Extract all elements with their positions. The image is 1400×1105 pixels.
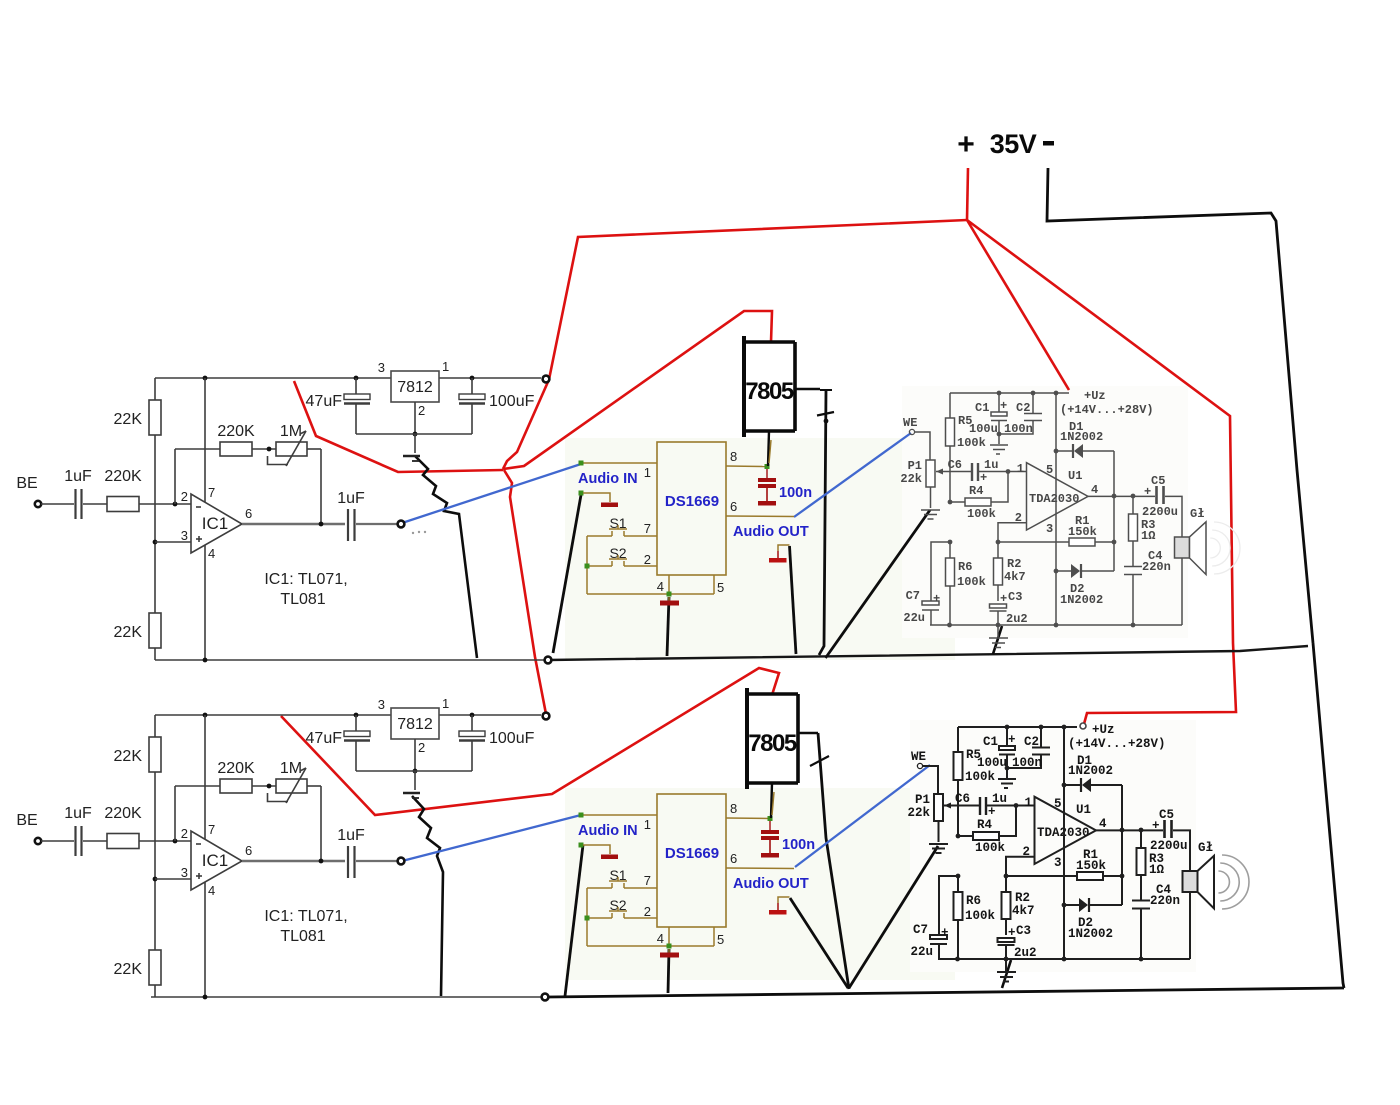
resistor R2 4k7 ch2 bbox=[1005, 876, 1007, 892]
svg-text:+: + bbox=[1000, 399, 1007, 413]
svg-text:4: 4 bbox=[208, 546, 215, 561]
svg-text:1uF: 1uF bbox=[64, 805, 92, 822]
svg-text:1N2002: 1N2002 bbox=[1060, 593, 1103, 607]
ground ch1 DS pin4 bbox=[668, 597, 670, 601]
wire ch1 switch common column bbox=[586, 536, 588, 594]
wire ch2 WE to P1 bbox=[922, 766, 938, 794]
wire ch2 preamp ground rail bbox=[151, 996, 548, 998]
svg-text:Audio OUT: Audio OUT bbox=[733, 524, 809, 540]
svg-text:C6: C6 bbox=[948, 458, 962, 472]
ground ch1 amp rail marker bbox=[997, 625, 999, 637]
svg-text:8: 8 bbox=[730, 449, 737, 464]
wire ch2 switch common column bbox=[586, 888, 588, 946]
svg-text:100k: 100k bbox=[975, 841, 1006, 855]
svg-text:+: + bbox=[1000, 592, 1007, 606]
node ch2 pin2 bbox=[173, 839, 178, 844]
wire ch1 WE to P1 bbox=[914, 432, 930, 460]
capacitor C1 100u ch1 bbox=[998, 393, 1000, 412]
svg-text:4: 4 bbox=[657, 931, 664, 946]
regulator 7805 ch1 bbox=[742, 336, 746, 437]
svg-text:1: 1 bbox=[1024, 796, 1032, 810]
svg-text:100k: 100k bbox=[957, 575, 986, 589]
wire ch2 DS bottom (pins 4,5) bbox=[587, 945, 714, 947]
wire red knot down to channel2 rail terminal bbox=[504, 470, 546, 714]
wire ch2 amp output bbox=[1096, 829, 1163, 831]
wire ch2 DS pin8 bbox=[726, 817, 770, 820]
wire ch2 pin2 to feedback node bbox=[1006, 857, 1035, 876]
wire ch1 supply column through U1 bbox=[1055, 393, 1057, 625]
IC DS1669 ch1 bbox=[657, 442, 726, 575]
node ch2 top-rail junctions bbox=[203, 713, 208, 718]
capacitor 100uF ch2 bbox=[459, 731, 485, 737]
svg-text:1uF: 1uF bbox=[337, 827, 365, 844]
terminal ch1 preamp output bbox=[398, 521, 405, 528]
wiper arrow P1 ch2 bbox=[944, 805, 980, 807]
svg-text:100n: 100n bbox=[1004, 422, 1033, 436]
wire ch2 pin4 to ground rail bbox=[204, 882, 206, 997]
wire ch2 pin7 supply bbox=[204, 715, 206, 839]
svg-text:1uF: 1uF bbox=[337, 490, 365, 507]
svg-text:2: 2 bbox=[644, 904, 651, 919]
background tint amp area ch1 bbox=[902, 386, 1188, 638]
wire ch2 7812 pin2 down bbox=[414, 739, 416, 771]
svg-text:220K: 220K bbox=[217, 760, 255, 777]
svg-text:Audio OUT: Audio OUT bbox=[733, 876, 809, 892]
svg-text:Gł: Gł bbox=[1190, 507, 1204, 521]
wire ch1 7805 output to mid rail bbox=[795, 388, 820, 391]
op-amp IC1 ch2 bbox=[191, 831, 242, 890]
wire ch1 to pin2 bbox=[139, 503, 191, 505]
wire blue ch2 AudioOUT to WE bbox=[795, 765, 930, 867]
svg-text:4k7: 4k7 bbox=[1004, 570, 1026, 584]
potentiometer 1M ch1 bbox=[276, 442, 307, 456]
svg-text:150k: 150k bbox=[1068, 525, 1097, 539]
wire ch1 1M to output node bbox=[320, 449, 322, 524]
potentiometer P1 22k ch1 bbox=[926, 460, 935, 487]
svg-text:IC1: TL071,: IC1: TL071, bbox=[264, 908, 347, 925]
svg-text:100u: 100u bbox=[977, 756, 1007, 770]
wire ch1 amp +V rail bbox=[950, 392, 1069, 394]
svg-text:+: + bbox=[1008, 733, 1016, 747]
wire ch2 input bbox=[41, 840, 74, 842]
capacitor C3 2u2 ch1 bbox=[990, 604, 1007, 608]
wire blue ch2 preamp-out to AudioIN bbox=[402, 815, 581, 861]
svg-text:22u: 22u bbox=[910, 945, 933, 959]
wire +35V stub red bbox=[967, 168, 968, 220]
svg-text:1N2002: 1N2002 bbox=[1068, 764, 1113, 778]
svg-text:100n: 100n bbox=[1012, 756, 1042, 770]
wire ch2 7805 output pin bbox=[771, 783, 772, 818]
svg-text:+: + bbox=[988, 805, 996, 819]
svg-text:100uF: 100uF bbox=[489, 393, 535, 410]
terminal ch2 preamp output bbox=[398, 858, 405, 865]
wire red to 7805 ch2 bbox=[281, 668, 779, 815]
wire ch2 pin3 bbox=[155, 878, 191, 880]
terminal BE input ch2 bbox=[35, 838, 41, 844]
svg-text:1M: 1M bbox=[280, 760, 302, 777]
speaker Gl ch1 bbox=[1175, 537, 1190, 558]
wire ch2 1M to output node bbox=[320, 786, 322, 861]
wire ch2 7805 output to bottom rail bbox=[798, 732, 818, 735]
svg-text:220K: 220K bbox=[104, 468, 142, 485]
wiper arrow P1 ch1 bbox=[936, 471, 972, 473]
svg-text:+: + bbox=[1144, 485, 1151, 499]
resistor R1 150k ch2 bbox=[1006, 875, 1077, 877]
svg-text:3: 3 bbox=[181, 865, 188, 880]
node ch2 feedback-1M junction bbox=[267, 784, 272, 789]
svg-text:C1: C1 bbox=[983, 735, 998, 749]
svg-text:2: 2 bbox=[644, 552, 651, 567]
IC DS1669 ch2 bbox=[657, 794, 726, 927]
op-amp U1 TDA2030 ch2 bbox=[1035, 797, 1097, 864]
potentiometer P1 22k ch2 bbox=[934, 794, 943, 821]
regulator 7812 ch2 bbox=[391, 708, 439, 739]
svg-text:150k: 150k bbox=[1076, 859, 1107, 873]
wire ground slash ch2 amp bbox=[1002, 960, 1011, 988]
ground ch2 C1/C2 bbox=[1006, 768, 1008, 778]
wire ch1 DS bottom (pins 4,5) bbox=[587, 593, 714, 595]
svg-text:1Ω: 1Ω bbox=[1141, 529, 1155, 543]
wire ch2 supply column through U1 bbox=[1063, 727, 1065, 959]
svg-text:1: 1 bbox=[1017, 462, 1024, 476]
svg-text:+Uz: +Uz bbox=[1084, 389, 1106, 403]
svg-text:2200u: 2200u bbox=[1150, 839, 1188, 853]
svg-text:1: 1 bbox=[442, 696, 449, 711]
svg-text:1uF: 1uF bbox=[64, 468, 92, 485]
terminal ch2 +Uz bbox=[1080, 723, 1086, 729]
ground ch2 amp rail marker bbox=[1005, 959, 1007, 971]
ground ch2 DS pin4 bbox=[668, 949, 670, 953]
svg-text:5: 5 bbox=[1046, 463, 1053, 477]
wire ground ch2 P1 diagonal bbox=[849, 846, 938, 988]
svg-text:C6: C6 bbox=[955, 792, 970, 806]
svg-text:220n: 220n bbox=[1142, 560, 1171, 574]
svg-text:1M: 1M bbox=[280, 423, 302, 440]
speaker Gl ch2 bbox=[1183, 871, 1198, 892]
svg-text:P1: P1 bbox=[915, 793, 930, 807]
ground ch1 7812 bbox=[414, 434, 416, 453]
svg-text:2u2: 2u2 bbox=[1014, 946, 1037, 960]
wire ch1 C5 to speaker bbox=[1165, 496, 1182, 537]
background tint DS area ch2 bbox=[565, 788, 955, 980]
resistor R5 100k ch1 bbox=[949, 393, 951, 418]
capacitor 1uF output ch1 bbox=[347, 509, 349, 541]
capacitor C2 100n ch1 bbox=[1032, 393, 1034, 413]
capacitor C4 220n ch2 bbox=[1132, 900, 1150, 902]
svg-text:22K: 22K bbox=[114, 624, 143, 641]
svg-text:100uF: 100uF bbox=[489, 730, 535, 747]
svg-text:R4: R4 bbox=[977, 818, 993, 832]
svg-text:7812: 7812 bbox=[397, 379, 433, 396]
svg-text:WE: WE bbox=[903, 416, 917, 430]
resistor R-22K lower ch2 bbox=[149, 950, 161, 985]
diode D2 1N2002 ch1 bbox=[1056, 570, 1071, 572]
wire ch1 amp ground rail bbox=[930, 624, 1182, 626]
svg-text:2: 2 bbox=[418, 403, 425, 418]
wire ch2 feedback riser bbox=[174, 786, 176, 841]
svg-text:47uF: 47uF bbox=[306, 730, 343, 747]
svg-text:P1: P1 bbox=[908, 459, 922, 473]
wire ground ch1 DS pin4 bbox=[667, 597, 669, 656]
background tint DS area ch1 bbox=[565, 438, 955, 660]
wire ground slash ch1 amp bbox=[993, 626, 1002, 654]
svg-text:3: 3 bbox=[378, 697, 385, 712]
node ch1 feedback-1M junction bbox=[267, 447, 272, 452]
wire ch2 op-amp output bbox=[242, 860, 345, 863]
svg-text:+Uz: +Uz bbox=[1092, 723, 1115, 737]
ground ch2 7812 bbox=[414, 771, 416, 790]
wire ch1 DS pin6 (Audio OUT) bbox=[726, 515, 794, 518]
svg-text:7805: 7805 bbox=[748, 730, 797, 757]
svg-text:4: 4 bbox=[1091, 483, 1098, 497]
svg-text:22k: 22k bbox=[907, 806, 930, 820]
svg-text:2: 2 bbox=[181, 489, 188, 504]
wire ch2 amp ground rail bbox=[938, 958, 1190, 960]
capacitor C5 2200u ch2 bbox=[1163, 820, 1166, 838]
svg-text:220K: 220K bbox=[104, 805, 142, 822]
resistor 220K feedback ch1 bbox=[220, 442, 252, 456]
capacitor 1uF input ch2 bbox=[74, 826, 76, 856]
wire ground ch1 AudioIN bbox=[553, 495, 581, 653]
wire red J1 to channel1 amp +Uz bbox=[967, 220, 1069, 390]
regulator 7805 ch2 bbox=[745, 688, 749, 789]
svg-text:3: 3 bbox=[378, 360, 385, 375]
svg-text:+: + bbox=[1008, 926, 1016, 940]
svg-text:TL081: TL081 bbox=[280, 928, 325, 945]
ground ch1 P1 bbox=[930, 487, 932, 508]
wire ch1 output node column bbox=[1113, 451, 1115, 571]
svg-text:220n: 220n bbox=[1150, 894, 1180, 908]
svg-text:7: 7 bbox=[208, 485, 215, 500]
svg-text:1u: 1u bbox=[984, 458, 998, 472]
svg-text:100n: 100n bbox=[782, 837, 815, 853]
svg-text:4: 4 bbox=[657, 579, 664, 594]
svg-text:22K: 22K bbox=[114, 961, 143, 978]
resistor R-22K lower ch1 bbox=[149, 613, 161, 648]
svg-text:35V: 35V bbox=[990, 129, 1037, 159]
wire ch1 preamp ground rail bbox=[155, 659, 548, 661]
op-amp IC1 ch1 bbox=[191, 494, 242, 553]
ground ch1 spare output bbox=[778, 545, 790, 551]
wire blue ch1 AudioOUT to WE bbox=[794, 433, 911, 517]
diode D2 1N2002 ch2 bbox=[1064, 904, 1079, 906]
svg-text:R4: R4 bbox=[969, 484, 983, 498]
svg-text:5: 5 bbox=[1054, 797, 1062, 811]
wire ch2 divider column bbox=[154, 772, 156, 950]
resistor R-22K upper ch2 bbox=[154, 715, 156, 737]
resistor 220K input ch1 bbox=[107, 497, 139, 512]
wire ch2 to pin2 bbox=[139, 840, 191, 842]
svg-text:100k: 100k bbox=[965, 770, 996, 784]
wire ch1 pin4 to ground rail bbox=[204, 545, 206, 660]
terminal ch2 +12V rail end bbox=[543, 713, 550, 720]
wire ch2 output node column bbox=[1121, 785, 1123, 905]
capacitor C6 1u ch1 bbox=[971, 463, 973, 481]
svg-text:Gł: Gł bbox=[1198, 841, 1213, 855]
resistor R4 100k ch1 bbox=[948, 500, 953, 505]
wire red knot to 7805 ch1 bbox=[503, 311, 772, 469]
mark dots near ch1 output terminal bbox=[412, 532, 414, 534]
svg-text:1: 1 bbox=[644, 465, 651, 480]
capacitor C7 22u ch2 bbox=[939, 876, 958, 935]
wire ground ch2 DS pin4 bbox=[668, 949, 669, 993]
wire ch1 input bbox=[41, 503, 74, 505]
svg-text:BE: BE bbox=[16, 475, 37, 492]
resistor R6 100k ch2 bbox=[956, 874, 961, 879]
capacitor C4 220n ch1 bbox=[1124, 566, 1142, 568]
wire ch2 preamp top rail bbox=[155, 714, 391, 716]
svg-text:1: 1 bbox=[442, 359, 449, 374]
terminal bottom rail bbox=[542, 994, 549, 1001]
regulator 7812 ch1 bbox=[391, 371, 439, 402]
wire red knot to 1M stub ch1 bbox=[294, 381, 503, 472]
svg-text:+: + bbox=[1152, 819, 1160, 833]
wire ch1 pin7 supply bbox=[204, 378, 206, 502]
svg-text:R2: R2 bbox=[1007, 557, 1021, 571]
svg-text:4: 4 bbox=[208, 883, 215, 898]
svg-text:6: 6 bbox=[730, 851, 737, 866]
resistor R6 100k ch1 bbox=[948, 540, 953, 545]
svg-text:WE: WE bbox=[911, 750, 926, 764]
svg-text:IC1: IC1 bbox=[202, 514, 228, 533]
svg-text:100n: 100n bbox=[779, 485, 812, 501]
svg-text:BE: BE bbox=[16, 812, 37, 829]
svg-text:8: 8 bbox=[730, 801, 737, 816]
svg-text:C3: C3 bbox=[1016, 924, 1031, 938]
svg-text:C2: C2 bbox=[1024, 735, 1039, 749]
tick ch1 7805 line bbox=[817, 412, 834, 416]
svg-text:7: 7 bbox=[208, 822, 215, 837]
svg-text:2200u: 2200u bbox=[1142, 505, 1178, 519]
ground ch1 C1/C2 bbox=[998, 434, 1000, 444]
wire ground squiggle ch1 7812 bbox=[415, 456, 477, 658]
wire bottom ground rail bbox=[548, 988, 1344, 997]
svg-text:IC1: TL071,: IC1: TL071, bbox=[264, 571, 347, 588]
capacitor 47uF ch2 bbox=[344, 731, 370, 737]
wire ground ch2 AudioOUT bbox=[790, 898, 848, 988]
svg-text:7805: 7805 bbox=[745, 378, 794, 405]
svg-text:6: 6 bbox=[245, 506, 252, 521]
wire ground squiggle ch2 7812 bbox=[412, 796, 443, 996]
svg-text:+: + bbox=[980, 471, 987, 485]
capacitor 1uF output ch2 bbox=[347, 846, 349, 878]
svg-text:5: 5 bbox=[717, 580, 724, 595]
wire ch1 7812 pin2 down bbox=[414, 402, 416, 434]
svg-text:C7: C7 bbox=[906, 589, 920, 603]
wire ch1 DS pin8 bbox=[726, 465, 767, 468]
capacitor C6 1u ch2 bbox=[979, 797, 981, 815]
svg-text:DS1669: DS1669 bbox=[665, 845, 719, 862]
resistor R4 100k ch2 bbox=[956, 834, 961, 839]
svg-text:U1: U1 bbox=[1076, 803, 1091, 817]
capacitor 100uF ch1 bbox=[459, 394, 485, 400]
ground ch2 spare output bbox=[778, 897, 790, 903]
svg-text:3: 3 bbox=[1054, 856, 1062, 870]
diode D1 1N2002 ch2 bbox=[1064, 784, 1080, 786]
potentiometer 1M ch2 bbox=[276, 779, 307, 793]
capacitor C2 100n ch2 bbox=[1040, 727, 1042, 747]
svg-text:R6: R6 bbox=[958, 560, 972, 574]
wire ch2 DS pin6 (Audio OUT) bbox=[726, 867, 794, 870]
wire ch2 amp +V rail bbox=[958, 726, 1077, 728]
capacitor 100n ch1 bbox=[766, 469, 768, 478]
wire blue ch1 preamp-out to AudioIN bbox=[402, 464, 581, 523]
svg-text:4k7: 4k7 bbox=[1012, 904, 1035, 918]
svg-text:U1: U1 bbox=[1068, 469, 1082, 483]
resistor R2 4k7 ch1 bbox=[997, 542, 999, 558]
resistor R3 ch1 bbox=[1132, 496, 1134, 514]
speaker arcs ch1 bbox=[1210, 538, 1220, 558]
svg-text:Audio IN: Audio IN bbox=[578, 471, 638, 487]
svg-text:DS1669: DS1669 bbox=[665, 493, 719, 510]
svg-text:4: 4 bbox=[1099, 817, 1107, 831]
background tint amp area ch2 bbox=[910, 720, 1196, 972]
svg-text:7: 7 bbox=[644, 521, 651, 536]
wire -35V to right side ground bus bbox=[1047, 168, 1313, 643]
wire ground ch2 AudioIN bbox=[565, 845, 583, 996]
svg-text:7812: 7812 bbox=[397, 716, 433, 733]
wire ground ch1 AudioOUT bbox=[790, 546, 797, 654]
svg-text:100u: 100u bbox=[969, 422, 998, 436]
wire red J1 to channel2 amp +Uz bbox=[967, 220, 1236, 724]
svg-text:100k: 100k bbox=[957, 436, 986, 450]
svg-text:100k: 100k bbox=[967, 507, 996, 521]
resistor 220K feedback ch2 bbox=[220, 779, 252, 793]
wire ch1 divider column bbox=[154, 435, 156, 613]
node ch1 pin2 bbox=[173, 502, 178, 507]
svg-text:1u: 1u bbox=[992, 792, 1007, 806]
capacitor 47uF ch1 bbox=[344, 394, 370, 400]
svg-text:C2: C2 bbox=[1016, 401, 1030, 415]
svg-text:TDA2030: TDA2030 bbox=[1029, 492, 1079, 506]
wire ch2 speaker to ground rail bbox=[1189, 892, 1191, 959]
speaker arcs ch2 bbox=[1218, 871, 1229, 893]
wire ch1 preamp top rail bbox=[155, 377, 391, 379]
svg-text:6: 6 bbox=[245, 843, 252, 858]
svg-text:22K: 22K bbox=[114, 748, 143, 765]
svg-text:2u2: 2u2 bbox=[1006, 612, 1028, 626]
resistor R1 150k ch1 bbox=[998, 541, 1069, 543]
svg-text:1N2002: 1N2002 bbox=[1060, 430, 1103, 444]
svg-text:R6: R6 bbox=[966, 894, 981, 908]
wire ch1 pin2 to feedback node bbox=[998, 523, 1027, 542]
svg-text:R2: R2 bbox=[1015, 891, 1030, 905]
node ch2 spare input + ground bbox=[579, 843, 584, 848]
svg-text:+: + bbox=[957, 128, 975, 161]
svg-text:220K: 220K bbox=[217, 423, 255, 440]
op-amp U1 TDA2030 ch1 bbox=[1027, 463, 1089, 530]
wire ch2 DS pin1 (Audio IN) bbox=[581, 814, 657, 816]
svg-text:22u: 22u bbox=[903, 611, 925, 625]
svg-text:6: 6 bbox=[730, 499, 737, 514]
node ch1 top-rail junctions bbox=[203, 376, 208, 381]
svg-text:(+14V...+28V): (+14V...+28V) bbox=[1060, 403, 1154, 417]
wire ch1 pin3 bbox=[155, 541, 191, 543]
wire ch1 7805 output pin bbox=[768, 431, 769, 466]
svg-text:2: 2 bbox=[418, 740, 425, 755]
node ch1 pin3 junction bbox=[153, 540, 158, 545]
svg-text:47uF: 47uF bbox=[306, 393, 343, 410]
svg-text:C5: C5 bbox=[1151, 474, 1165, 488]
diode D1 1N2002 ch1 bbox=[1056, 450, 1072, 452]
capacitor C5 2200u ch1 bbox=[1155, 486, 1158, 504]
capacitor C7 22u ch1 bbox=[931, 542, 950, 601]
svg-text:IC1: IC1 bbox=[202, 851, 228, 870]
terminal ch1 +12V rail end bbox=[543, 376, 550, 383]
terminal mid rail bbox=[545, 657, 552, 664]
wire ground bus right vertical lower bbox=[1313, 643, 1344, 988]
svg-text:C7: C7 bbox=[913, 923, 928, 937]
